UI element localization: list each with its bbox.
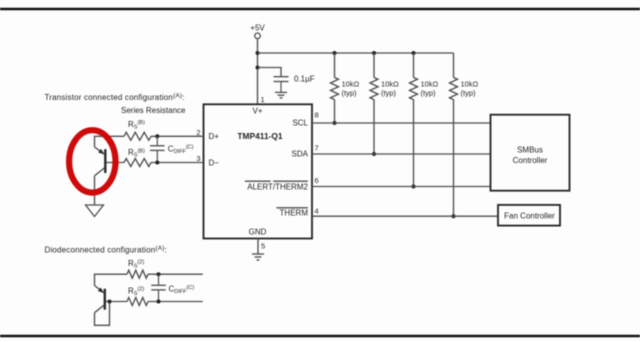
svg-text:SCL: SCL xyxy=(292,118,308,127)
capacitor CDIFF (diode config) xyxy=(151,274,166,301)
wire SCL (pin 8 to SMBus) xyxy=(312,122,491,124)
SMBus Controller box xyxy=(491,115,570,191)
Fan Controller box xyxy=(498,205,560,226)
node: R4-THERM junction xyxy=(452,214,456,218)
svg-text:10kΩ: 10kΩ xyxy=(461,79,479,88)
svg-text:V+: V+ xyxy=(252,106,262,115)
svg-text:10kΩ: 10kΩ xyxy=(421,79,439,88)
svg-text:GND: GND xyxy=(249,227,267,236)
wire RS(2) upper to Q2 emitter xyxy=(95,274,128,285)
svg-text:D+: D+ xyxy=(209,132,220,141)
wire D+ stub (diode config) xyxy=(148,273,203,275)
svg-text:6: 6 xyxy=(315,176,319,185)
node: stub/CDIFF junction lower xyxy=(157,300,161,304)
resistor R1 10k pull-up (SCL) xyxy=(331,78,339,100)
wire rail to resistor R2 xyxy=(373,53,375,78)
wire THERM (pin 4 to Fan Controller) xyxy=(312,215,498,217)
svg-text:TMP411-Q1: TMP411-Q1 xyxy=(237,131,282,141)
resistor RS(B) lower xyxy=(124,159,151,167)
node: stub/CDIFF junction upper xyxy=(157,272,161,276)
wire rail to resistor R1 xyxy=(334,53,336,78)
wire rail to resistor R4 xyxy=(453,53,455,78)
ground (capacitor C1) xyxy=(275,92,287,98)
svg-text:(typ): (typ) xyxy=(342,89,358,98)
svg-text:2: 2 xyxy=(196,128,200,137)
svg-text:Fan Controller: Fan Controller xyxy=(504,212,555,221)
wire Q2 collector loop to base xyxy=(95,302,110,326)
ground (Q1 collector) xyxy=(86,205,104,217)
wire +5V terminal to V+ pin 1 xyxy=(257,39,259,105)
red highlight ellipse around Q1 xyxy=(69,130,115,192)
node: rail junction at +5V xyxy=(256,51,260,55)
node: D+/CDIFF junction xyxy=(155,134,159,138)
svg-text:(typ): (typ) xyxy=(421,89,437,98)
wire SDA (pin 7 to SMBus) xyxy=(312,153,491,155)
node: R1-SCL junction xyxy=(333,121,337,125)
node: rail-R3 junction xyxy=(412,51,416,55)
wire RS lower to Q1 base xyxy=(106,162,125,164)
svg-text:THERM: THERM xyxy=(280,209,309,218)
svg-text:SDA: SDA xyxy=(292,149,309,158)
pin THERM label xyxy=(276,208,308,218)
wire rail to resistor R3 xyxy=(413,53,415,78)
wire RS(2) lower to Q2 base xyxy=(106,301,128,303)
+5V terminal xyxy=(255,33,261,39)
capacitor CDIFF xyxy=(150,136,165,162)
svg-text:Transistor connected configura: Transistor connected configuration(A): xyxy=(45,92,185,102)
node: Q2 base-collector junction xyxy=(108,300,112,304)
svg-text:1: 1 xyxy=(261,95,265,104)
resistor RS(B) upper xyxy=(124,132,151,140)
svg-text:4: 4 xyxy=(315,207,319,216)
wire R4 to THERM line xyxy=(453,100,455,217)
svg-text:5: 5 xyxy=(261,242,265,251)
wire R1 to SCL line xyxy=(334,100,336,124)
resistor RS(2) upper xyxy=(127,270,148,278)
wire Q1 collector to ground xyxy=(94,176,96,205)
resistor RS(2) lower xyxy=(127,298,148,306)
transistor Q1 (remote sensor) xyxy=(95,147,106,176)
wire GND pin 5 xyxy=(257,239,259,254)
svg-text:8: 8 xyxy=(315,111,319,120)
svg-text:Series Resistance: Series Resistance xyxy=(121,106,186,115)
svg-text:ALERT/THERM2: ALERT/THERM2 xyxy=(247,182,308,191)
svg-text:Controller: Controller xyxy=(513,156,548,165)
wire D- stub (diode config) xyxy=(148,301,203,303)
node: D-/CDIFF junction xyxy=(155,161,159,165)
wire +5V pull-up rail xyxy=(258,52,454,54)
svg-text:(typ): (typ) xyxy=(381,89,397,98)
node: capacitor branch junction xyxy=(256,66,260,70)
node: rail-R1 junction xyxy=(333,51,337,55)
svg-text:D−: D− xyxy=(209,158,220,167)
resistor R2 10k pull-up (SDA) xyxy=(370,78,378,100)
node: R2-SDA junction xyxy=(372,152,376,156)
wire D- line IC to RS lower xyxy=(151,162,204,164)
wire R2 to SDA line xyxy=(373,100,375,155)
transistor Q2 (diode connected) xyxy=(95,286,106,313)
svg-text:(typ): (typ) xyxy=(461,89,477,98)
wire D+ line IC to RS upper xyxy=(151,135,204,137)
node: R3-ALERT junction xyxy=(412,185,416,189)
svg-text:7: 7 xyxy=(315,144,319,153)
wire RS upper to Q1 emitter xyxy=(95,136,125,147)
capacitor C1 xyxy=(274,77,289,92)
svg-text:0.1µF: 0.1µF xyxy=(294,74,315,83)
svg-text:10kΩ: 10kΩ xyxy=(342,79,360,88)
svg-text:SMBus: SMBus xyxy=(517,146,543,155)
svg-text:+5V: +5V xyxy=(250,24,265,33)
svg-text:Diodeconnected configuration(A: Diodeconnected configuration(A): xyxy=(45,245,168,255)
wire R3 to ALERT line xyxy=(413,100,415,187)
resistor R4 10k pull-up (THERM) xyxy=(450,78,458,100)
pin ALERT/THERM2 label xyxy=(245,181,309,191)
wire branch to capacitor C1 xyxy=(258,68,282,77)
IC U1 TMP411-Q1 xyxy=(204,104,313,238)
wire ALERT/THERM2 (pin 6 to SMBus) xyxy=(312,186,491,188)
ground (IC GND pin 5) xyxy=(252,254,264,260)
svg-text:10kΩ: 10kΩ xyxy=(381,79,399,88)
svg-text:3: 3 xyxy=(196,154,200,163)
resistor R3 10k pull-up (ALERT) xyxy=(410,78,418,100)
node: rail-R2 junction xyxy=(372,51,376,55)
